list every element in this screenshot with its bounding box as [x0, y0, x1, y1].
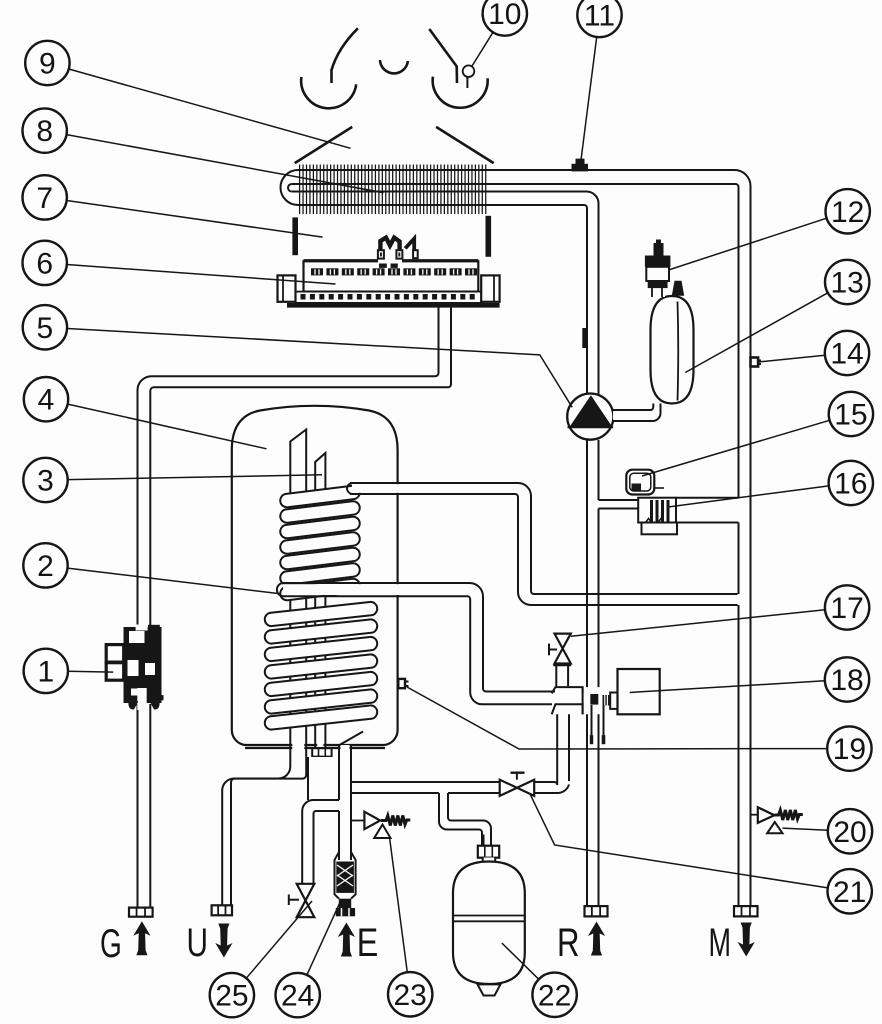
- bypass pipe from riser: [599, 500, 639, 509]
- svg-text:G: G: [100, 922, 122, 966]
- leader line 7: [67, 201, 323, 238]
- callout circle 18: [825, 657, 869, 701]
- cold water branch pipe to filling valve 21: [352, 783, 499, 792]
- filling valve 25: [297, 884, 315, 901]
- callout circle 11: [577, 0, 621, 37]
- callout circle 1: [24, 649, 68, 693]
- svg-text:12: 12: [831, 196, 864, 229]
- callout circle 2: [23, 543, 67, 587]
- water filter 24: [335, 852, 356, 899]
- heating coil 2 (heat exchanger coil in tank): [264, 485, 378, 730]
- G connection nut: [129, 908, 153, 917]
- U arrow: [215, 924, 232, 958]
- svg-text:7: 7: [36, 182, 53, 215]
- flue hood 9: [295, 127, 353, 163]
- gas valve 1: [106, 625, 163, 711]
- leader line 9: [69, 69, 351, 148]
- diverter valve body: [553, 688, 583, 714]
- drain fitting 14: [751, 358, 759, 367]
- valve 17: [557, 665, 567, 686]
- DHW storage tank 4: [232, 406, 398, 745]
- diverter motor 18: [618, 669, 660, 714]
- leader line 23: [390, 838, 408, 972]
- pipe from nut B to filling valve branch: [309, 757, 339, 800]
- automatic air vent 12: [649, 288, 665, 297]
- callout circle 25: [210, 973, 254, 1017]
- callout circle 17: [825, 585, 869, 629]
- check valve 23: [351, 820, 364, 822]
- svg-text:6: 6: [36, 247, 53, 280]
- callout circle 16: [829, 461, 873, 505]
- leader line 2: [68, 568, 279, 593]
- filling valve 21: [500, 780, 517, 796]
- leader line 3: [68, 475, 322, 480]
- leader line 11: [581, 37, 597, 164]
- svg-text:8: 8: [36, 115, 53, 148]
- svg-text:4: 4: [38, 384, 55, 417]
- leader line 16: [668, 486, 829, 507]
- pressure switch 15: [626, 470, 654, 495]
- M arrow: [738, 923, 755, 957]
- fan scroll curves: [332, 28, 358, 83]
- callout circle 9: [25, 41, 69, 85]
- leader line 15: [642, 420, 830, 476]
- leader line 25: [246, 901, 312, 978]
- heat exchanger fins 8: [300, 165, 486, 215]
- svg-text:R: R: [557, 921, 580, 965]
- svg-text:15: 15: [834, 399, 867, 432]
- callout circle 14: [825, 331, 869, 375]
- flow pipe M: [738, 187, 740, 906]
- ignition electrode tip 10: [463, 65, 475, 77]
- svg-text:10: 10: [488, 0, 521, 31]
- ignition electrodes (M1): [378, 238, 418, 268]
- callout circle 19: [827, 726, 871, 770]
- G arrow: [133, 921, 150, 955]
- callout circle 23: [388, 972, 432, 1016]
- leader line 1: [68, 670, 113, 673]
- return riser pipe R: [586, 208, 588, 906]
- E arrow: [338, 923, 355, 957]
- DHW expansion vessel 22: [483, 835, 485, 846]
- leader line 20: [783, 828, 828, 830]
- leader line 17: [571, 610, 825, 637]
- svg-text:16: 16: [834, 468, 867, 501]
- callout circle 21: [828, 869, 872, 913]
- callout circle 6: [23, 241, 67, 285]
- callout circle 8: [23, 108, 67, 152]
- leader line 24: [307, 901, 341, 975]
- svg-text:22: 22: [538, 979, 571, 1012]
- vessel gas valve cap: [672, 281, 684, 296]
- callout circle 15: [829, 392, 873, 436]
- svg-text:14: 14: [830, 338, 863, 371]
- valve core black parts: [590, 694, 598, 705]
- svg-text:U: U: [187, 921, 209, 965]
- callout circle 7: [23, 175, 67, 219]
- drain spout below valve: [592, 705, 604, 744]
- callout circle 10: [483, 0, 527, 36]
- leader line 6: [67, 265, 336, 285]
- svg-text:13: 13: [831, 267, 864, 300]
- cold water inlet riser pipe E: [341, 745, 350, 860]
- expansion vessel 13: [651, 296, 694, 404]
- temperature sensor clip: [582, 328, 587, 348]
- pump to expansion vessel pipe: [613, 411, 655, 420]
- svg-text:23: 23: [394, 979, 427, 1012]
- burner 6: [278, 260, 500, 305]
- leader line 14: [759, 355, 825, 362]
- diverter valve down leg: [557, 714, 569, 784]
- leader line 4: [68, 404, 267, 449]
- R connection nut: [585, 906, 608, 916]
- automatic bypass valve 16: [638, 498, 676, 523]
- leader line 5: [67, 329, 572, 408]
- leader line 19: [407, 687, 827, 749]
- callout circle 4: [24, 377, 68, 421]
- leader line 21: [530, 794, 828, 888]
- gas pipe below valve to G: [139, 700, 150, 908]
- callout circle 22: [532, 973, 576, 1017]
- leader line 8: [67, 135, 384, 193]
- svg-text:24: 24: [281, 980, 314, 1013]
- M connection nut: [734, 906, 758, 916]
- leader line 18: [630, 681, 825, 693]
- expansion vessel 22 feed pipe: [440, 793, 447, 823]
- coil top outlet pipe (to M line): [352, 484, 529, 493]
- svg-text:17: 17: [830, 592, 863, 625]
- callout circle 24: [276, 973, 320, 1017]
- U connection nut: [212, 905, 232, 915]
- R arrow: [588, 922, 605, 956]
- callout circle 20: [828, 809, 872, 853]
- callout circle 13: [825, 260, 869, 304]
- coil lower outlet pipe (to diverter valve): [283, 584, 469, 595]
- hot water outlet pipe U: [292, 744, 304, 780]
- svg-text:19: 19: [833, 733, 866, 766]
- tank internal pipe B (to bottom nut): [317, 458, 323, 747]
- flue sensor fitting 11: [572, 164, 589, 172]
- svg-text:1: 1: [37, 655, 54, 688]
- leader line 13: [685, 293, 828, 373]
- leader line 22: [502, 943, 539, 979]
- bypass pipe to M line: [676, 498, 739, 523]
- svg-text:9: 9: [39, 48, 56, 81]
- callout circle 12: [826, 189, 870, 233]
- tank bottom nut (pipe B): [313, 749, 331, 757]
- safety valve 20: [751, 814, 758, 816]
- tank internal pipe A (cold side down to U): [292, 434, 304, 744]
- heat exchanger hairpin tube: [298, 170, 751, 498]
- tank drain fitting 19: [398, 679, 405, 688]
- svg-text:3: 3: [37, 465, 54, 498]
- combustion chamber wall marks 7: [292, 217, 298, 255]
- svg-text:18: 18: [830, 664, 863, 697]
- svg-text:11: 11: [584, 0, 615, 33]
- leader line 12: [670, 218, 827, 269]
- svg-text:20: 20: [833, 816, 866, 849]
- svg-text:2: 2: [37, 550, 54, 583]
- svg-text:21: 21: [833, 876, 866, 909]
- svg-text:E: E: [357, 921, 379, 965]
- callout circle 3: [23, 458, 67, 502]
- svg-text:25: 25: [215, 980, 248, 1013]
- svg-text:M: M: [709, 921, 732, 965]
- pump 5: [567, 394, 613, 440]
- gas pipe to burner: [440, 307, 450, 379]
- svg-text:5: 5: [37, 312, 54, 345]
- callout circle 5: [23, 305, 67, 349]
- leader line 10: [472, 32, 493, 66]
